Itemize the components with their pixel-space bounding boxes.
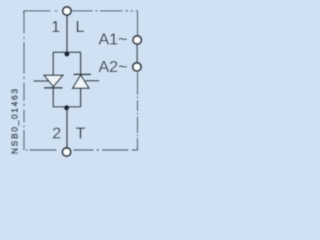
svg-text:A2~: A2~ — [99, 59, 128, 76]
svg-text:L: L — [76, 19, 85, 36]
svg-text:NSB0_01463: NSB0_01463 — [9, 87, 19, 154]
svg-text:A1~: A1~ — [99, 31, 128, 48]
svg-text:1: 1 — [51, 19, 60, 36]
svg-text:T: T — [76, 125, 86, 142]
svg-text:2: 2 — [52, 126, 61, 143]
